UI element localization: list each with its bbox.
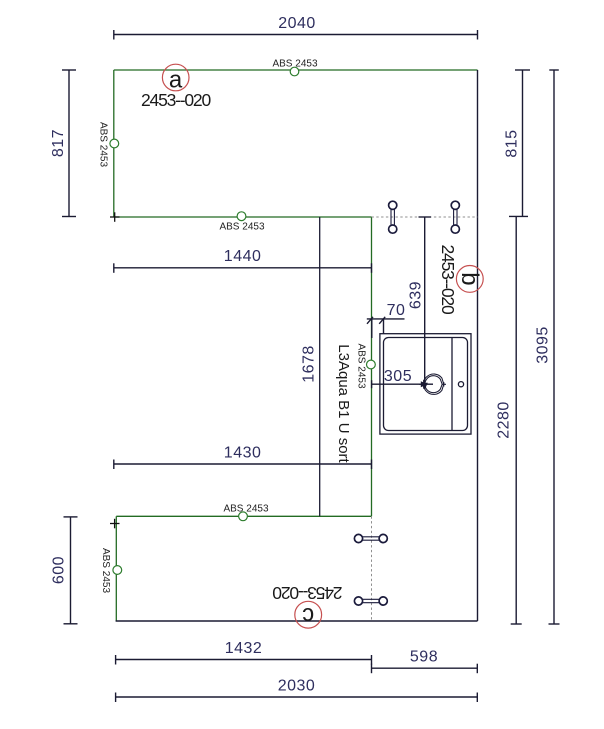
label b circle [456, 266, 483, 293]
sink small hole [458, 382, 463, 387]
dimension 598 [372, 664, 478, 674]
dimension 1678 [319, 217, 321, 516]
dimension 3095 [549, 70, 560, 624]
svg-text:ABS 2453: ABS 2453 [219, 222, 264, 233]
worktop piece a: bottom inner edge (green ABS) [114, 216, 372, 218]
connector bolt horizontal at b/c joint top [354, 534, 387, 542]
label c circle [295, 601, 322, 628]
tap hole inner ring [425, 376, 442, 393]
worktop piece a: top edge (green ABS) [114, 69, 478, 71]
svg-text:ABS 2453: ABS 2453 [356, 343, 367, 388]
worktop piece b: left inner edge (green ABS) [371, 217, 373, 516]
svg-text:2453--020: 2453--020 [272, 583, 342, 603]
label a circle [162, 64, 189, 91]
sink outer rectangle [380, 334, 471, 434]
svg-text:2280: 2280 [496, 401, 513, 439]
svg-text:639: 639 [408, 281, 425, 309]
svg-text:2453--020: 2453--020 [141, 90, 211, 110]
corner cross at a/b inner corner [110, 212, 120, 222]
worktop right outer edge [477, 70, 479, 621]
svg-text:600: 600 [51, 556, 68, 584]
dimension 2280 [511, 217, 522, 624]
svg-text:817: 817 [50, 129, 67, 157]
dimension 70 [367, 317, 405, 338]
dimension 639 [419, 217, 432, 384]
svg-text:c: c [302, 602, 314, 629]
svg-text:1678: 1678 [301, 345, 318, 383]
svg-text:ABS 2453: ABS 2453 [223, 504, 268, 515]
dimension 1432 [116, 655, 372, 665]
sink divider line [451, 338, 453, 431]
worktop piece a: left edge (green ABS) [113, 70, 115, 217]
dimension 305 [372, 380, 433, 389]
svg-text:ABS 2453: ABS 2453 [100, 548, 111, 593]
ABS marker on a top edge [290, 67, 299, 76]
worktop piece c: top edge (green ABS) [116, 515, 371, 517]
sink inner rounded rectangle [384, 338, 468, 431]
dimension 1440 [114, 263, 372, 273]
svg-text:ABS 2453: ABS 2453 [97, 122, 108, 167]
joint a/b dashed line [372, 216, 478, 218]
dimension 817 [62, 70, 76, 217]
svg-text:815: 815 [504, 129, 521, 157]
corner cross at c top-left corner [110, 519, 120, 529]
dimension 1430 [114, 460, 372, 470]
svg-text:2030: 2030 [278, 678, 316, 695]
svg-text:ABS 2453: ABS 2453 [272, 58, 317, 69]
dimension 2040 [114, 30, 478, 40]
ABS marker on c top edge [239, 512, 248, 521]
svg-text:598: 598 [410, 649, 438, 666]
svg-text:1440: 1440 [224, 248, 262, 265]
connector bolt vertical at a/b joint right [451, 201, 459, 233]
connector bolt vertical at a/b joint left [389, 201, 397, 233]
svg-text:70: 70 [387, 302, 406, 319]
dimension 600 [64, 517, 78, 624]
ABS marker on a left edge [110, 139, 119, 148]
svg-text:b: b [456, 272, 483, 285]
dimension 2030 [116, 693, 478, 703]
dimension arrowheads at tap [421, 381, 428, 387]
worktop bottom outer edge [116, 620, 478, 622]
svg-text:1430: 1430 [224, 445, 262, 462]
tap hole outer ring [424, 374, 444, 394]
connector bolt horizontal at b/c joint bottom [354, 597, 387, 605]
joint b/c dashed line [371, 516, 373, 621]
svg-text:1432: 1432 [225, 640, 263, 657]
tap hole right vertex cross [442, 382, 446, 386]
worktop piece c: left edge (green ABS) [115, 516, 117, 621]
svg-text:3095: 3095 [535, 326, 552, 364]
svg-text:305: 305 [384, 368, 412, 385]
svg-text:2453--020: 2453--020 [438, 245, 458, 315]
dimension 815 [509, 70, 530, 217]
ABS marker on a bottom edge [237, 212, 246, 221]
svg-text:L3Aqua B1 U sort: L3Aqua B1 U sort [335, 344, 352, 463]
ABS marker on c left edge [113, 566, 122, 575]
ABS marker on b inner edge [367, 360, 376, 369]
svg-text:2040: 2040 [278, 15, 316, 32]
